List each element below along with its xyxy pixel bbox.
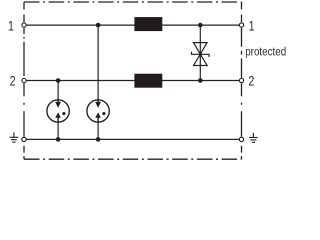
svg-text:2: 2 xyxy=(248,73,254,89)
svg-text:protected: protected xyxy=(245,46,286,59)
svg-text:1: 1 xyxy=(249,18,255,34)
svg-text:2: 2 xyxy=(10,73,16,89)
svg-text:1: 1 xyxy=(8,18,14,34)
